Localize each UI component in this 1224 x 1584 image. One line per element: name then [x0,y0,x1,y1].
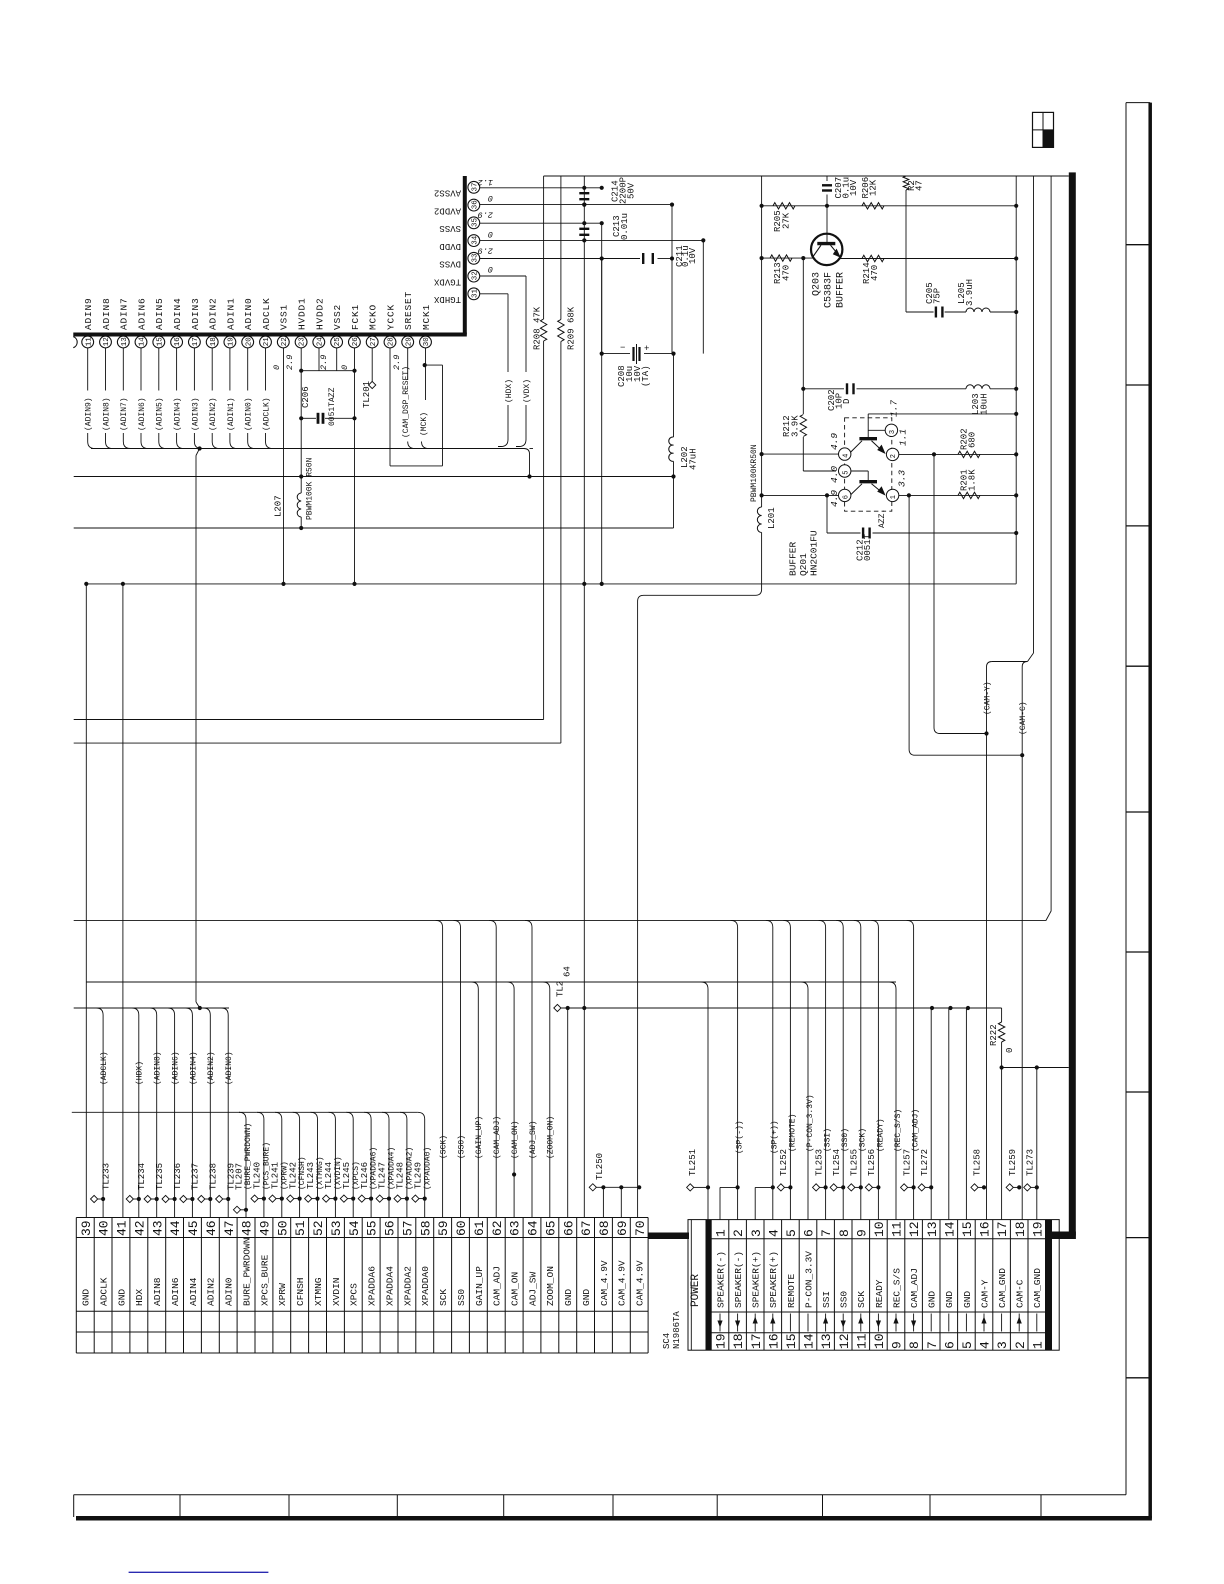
svg-text:49: 49 [258,1220,273,1236]
svg-text:CFNSH: CFNSH [295,1277,306,1306]
svg-text:4.9: 4.9 [829,490,840,507]
svg-text:17: 17 [749,1333,764,1349]
svg-text:SSI: SSI [821,1291,832,1308]
svg-text:(ADIN6): (ADIN6) [138,397,147,431]
svg-text:3.3: 3.3 [896,470,907,487]
svg-text:XVDIN: XVDIN [331,1277,342,1306]
svg-text:10: 10 [872,1333,887,1349]
svg-text:TL2: TL2 [556,981,566,997]
svg-text:(ADIN0): (ADIN0) [245,397,254,431]
svg-text:61: 61 [472,1220,487,1236]
svg-text:SRESET: SRESET [403,291,414,330]
svg-text:VSS2: VSS2 [332,304,343,330]
svg-text:CAM_ADJ: CAM_ADJ [492,1266,503,1306]
svg-text:XTMNG: XTMNG [313,1277,324,1306]
svg-text:5: 5 [960,1341,975,1349]
svg-text:(SS0): (SS0) [841,1128,850,1152]
svg-text:45: 45 [186,1220,201,1236]
svg-text:TL234: TL234 [137,1163,147,1190]
svg-text:(VDX): (VDX) [523,379,532,403]
svg-text:REC_S/S: REC_S/S [891,1268,902,1308]
svg-text:62: 62 [490,1220,505,1236]
svg-text:TL255: TL255 [850,1149,860,1176]
svg-text:SCK: SCK [438,1289,449,1306]
svg-text:TL240: TL240 [253,1162,263,1189]
svg-text:10V: 10V [688,247,698,264]
svg-text:1.1: 1.1 [897,429,908,446]
svg-text:24: 24 [316,337,324,347]
svg-text:R209 68K: R209 68K [567,306,577,350]
svg-text:(SP(+)): (SP(+)) [771,1120,780,1154]
svg-text:C5383F: C5383F [824,272,835,308]
svg-text:68: 68 [597,1220,612,1236]
svg-text:ADIN8: ADIN8 [101,297,112,330]
svg-text:(SP(-)): (SP(-)) [736,1120,745,1154]
svg-text:34: 34 [471,235,479,245]
svg-text:BURE_PWRDOWN: BURE_PWRDOWN [242,1238,253,1306]
svg-text:TL252: TL252 [779,1149,789,1176]
svg-text:(ADIN1): (ADIN1) [227,397,236,431]
svg-text:TGHDX: TGHDX [433,294,461,304]
svg-text:(CAM_ADJ): (CAM_ADJ) [493,1116,502,1159]
svg-text:39: 39 [79,1220,94,1236]
svg-text:ADIN8: ADIN8 [152,1277,163,1306]
svg-text:57: 57 [401,1220,416,1236]
svg-text:31: 31 [471,288,479,298]
svg-text:(ADIN0): (ADIN0) [225,1051,234,1085]
svg-text:(SCK): (SCK) [859,1128,868,1152]
svg-text:0: 0 [488,193,493,203]
svg-text:51: 51 [293,1220,308,1236]
svg-text:1.2: 1.2 [478,177,493,187]
svg-text:(SCK): (SCK) [440,1135,449,1159]
svg-text:56: 56 [383,1220,398,1236]
svg-text:0: 0 [488,264,493,274]
svg-text:POWER: POWER [690,1274,702,1307]
svg-text:CAM_4.9V: CAM_4.9V [635,1260,646,1306]
svg-text:TL248: TL248 [396,1162,406,1189]
svg-text:48: 48 [240,1220,255,1236]
svg-text:SPEAKER(-): SPEAKER(-) [733,1251,744,1308]
svg-text:TL247: TL247 [378,1162,388,1189]
svg-text:VSS1: VSS1 [279,304,290,330]
svg-text:3: 3 [749,1229,764,1237]
svg-text:Q201: Q201 [798,553,809,576]
svg-text:0051TAZZ: 0051TAZZ [328,387,337,426]
svg-text:4.0: 4.0 [829,466,840,483]
svg-text:(CAM-C): (CAM-C) [1019,701,1028,735]
svg-text:GND: GND [563,1289,574,1306]
svg-text:(GAIN_UP): (GAIN_UP) [475,1116,484,1159]
svg-text:CAM_GND: CAM_GND [1032,1268,1043,1308]
svg-text:SVSS: SVSS [439,223,461,233]
svg-text:0: 0 [272,365,282,370]
svg-text:5: 5 [784,1229,799,1237]
svg-text:GND: GND [944,1291,955,1308]
svg-text:0: 0 [488,229,493,239]
svg-text:TL256: TL256 [867,1149,877,1176]
svg-text:2: 2 [731,1229,746,1237]
svg-text:HVDD2: HVDD2 [314,297,325,330]
svg-text:6: 6 [802,1229,817,1237]
svg-text:TL250: TL250 [595,1153,605,1180]
svg-text:(ADCLK): (ADCLK) [262,397,271,431]
svg-text:(CAM-Y): (CAM-Y) [983,681,992,715]
svg-text:(SSI): (SSI) [824,1128,833,1152]
svg-text:8: 8 [837,1229,852,1237]
svg-text:23: 23 [299,337,307,347]
svg-text:(ADIN2): (ADIN2) [209,397,218,431]
svg-text:2.9: 2.9 [392,355,402,370]
svg-text:64: 64 [526,1220,541,1236]
svg-text:0.01u: 0.01u [620,213,630,240]
svg-text:18: 18 [210,337,218,346]
svg-text:52: 52 [311,1220,326,1236]
svg-text:TL238: TL238 [209,1163,219,1190]
svg-text:P-CON_3.3V: P-CON_3.3V [803,1251,814,1308]
svg-text:TL246: TL246 [360,1162,370,1189]
svg-text:22: 22 [281,337,289,346]
svg-text:(ADIN4): (ADIN4) [174,397,183,431]
svg-text:ADIN0: ADIN0 [243,297,254,330]
svg-text:TL241: TL241 [271,1162,281,1189]
svg-text:(HDX): (HDX) [505,379,514,403]
svg-text:PBWM100K R50N: PBWM100K R50N [305,457,314,520]
svg-text:16: 16 [978,1221,993,1237]
svg-text:8: 8 [907,1341,922,1349]
svg-text:SPEAKER(+): SPEAKER(+) [768,1251,779,1308]
svg-text:ADIN0: ADIN0 [224,1277,235,1306]
svg-text:YCCK: YCCK [385,304,396,330]
svg-text:HDX: HDX [134,1289,145,1306]
svg-text:10uH: 10uH [980,393,990,415]
svg-text:40: 40 [97,1220,112,1236]
svg-text:(ADIN8): (ADIN8) [154,1051,163,1085]
svg-text:32: 32 [471,271,479,280]
svg-text:3.9uH: 3.9uH [965,279,975,306]
svg-text:18: 18 [731,1333,746,1349]
svg-text:TGVDX: TGVDX [433,276,461,286]
svg-text:11: 11 [854,1333,869,1349]
svg-text:(REC_S/S): (REC_S/S) [894,1109,903,1152]
svg-text:TL254: TL254 [832,1149,842,1176]
svg-text:READY: READY [874,1279,885,1308]
svg-text:9: 9 [890,1341,905,1349]
svg-text:BUFFER: BUFFER [787,541,798,576]
svg-text:12: 12 [837,1333,852,1349]
svg-text:(SS0): (SS0) [457,1135,466,1159]
svg-text:HN2C01FU: HN2C01FU [808,530,819,576]
svg-text:470: 470 [782,265,792,281]
svg-text:47: 47 [222,1220,237,1236]
svg-text:14: 14 [802,1333,817,1349]
svg-text:N1986TA: N1986TA [672,1311,682,1349]
svg-text:(ADCLK): (ADCLK) [100,1051,109,1085]
svg-text:54: 54 [347,1220,362,1236]
svg-text:470: 470 [870,265,880,281]
svg-text:GND: GND [116,1289,127,1306]
svg-text:TL201: TL201 [362,381,372,408]
svg-text:17: 17 [995,1221,1010,1237]
svg-text:27: 27 [370,337,378,346]
svg-text:13: 13 [819,1333,834,1349]
svg-text:MCK1: MCK1 [421,304,432,330]
svg-text:(ADIN3): (ADIN3) [191,397,200,431]
svg-text:11: 11 [85,337,93,347]
svg-text:14: 14 [139,337,147,347]
svg-text:14: 14 [942,1221,957,1237]
svg-text:XPADDA6: XPADDA6 [367,1266,378,1306]
svg-text:R222: R222 [989,1024,999,1046]
svg-text:REMOTE: REMOTE [786,1273,797,1308]
svg-text:CAM_4.9V: CAM_4.9V [617,1260,628,1306]
svg-text:CAM_ON: CAM_ON [510,1272,521,1306]
svg-text:ADIN7: ADIN7 [119,297,130,330]
svg-text:(ADIN5): (ADIN5) [156,397,165,431]
svg-text:(ADJ_SW): (ADJ_SW) [529,1121,538,1159]
svg-text:4: 4 [766,1229,781,1237]
svg-text:D: D [842,399,852,404]
svg-text:15: 15 [784,1333,799,1349]
svg-text:60: 60 [454,1220,469,1236]
svg-text:10V: 10V [849,179,859,196]
svg-text:MCKO: MCKO [368,304,379,330]
svg-text:43: 43 [150,1220,165,1236]
svg-text:TL244: TL244 [324,1162,334,1189]
svg-text:SS0: SS0 [456,1289,467,1306]
svg-text:(P-CON_3.3V): (P-CON_3.3V) [806,1094,815,1152]
svg-text:BUFFER: BUFFER [836,272,847,308]
svg-text:XPCS: XPCS [349,1283,360,1306]
svg-text:ADCLK: ADCLK [99,1277,110,1306]
svg-text:XPCS_BURE: XPCS_BURE [259,1254,270,1306]
svg-text:ADIN6: ADIN6 [137,297,148,330]
svg-text:ADIN6: ADIN6 [170,1277,181,1306]
svg-text:GND: GND [581,1289,592,1306]
svg-text:75P: 75P [933,288,943,304]
svg-text:TL236: TL236 [173,1163,183,1190]
svg-text:(ADIN8): (ADIN8) [102,397,111,431]
svg-text:29: 29 [405,337,413,346]
svg-text:0051T: 0051T [863,533,873,561]
svg-text:58: 58 [418,1220,433,1236]
svg-text:15: 15 [156,337,164,347]
svg-text:15: 15 [960,1221,975,1237]
svg-text:69: 69 [615,1220,630,1236]
svg-text:SC4: SC4 [662,1333,672,1349]
svg-text:(ADIN6): (ADIN6) [171,1051,180,1085]
svg-text:XPADDA2: XPADDA2 [402,1266,413,1306]
svg-text:(CAM_ADJ): (CAM_ADJ) [912,1109,921,1152]
svg-text:R208 47K: R208 47K [533,306,543,350]
svg-text:44: 44 [168,1220,183,1236]
svg-text:XPADDA4: XPADDA4 [384,1266,395,1306]
svg-text:GND: GND [962,1291,973,1308]
svg-text:3: 3 [995,1341,1010,1349]
svg-text:SPEAKER(-): SPEAKER(-) [715,1251,726,1308]
svg-text:DVDD: DVDD [439,241,461,251]
svg-text:ADIN4: ADIN4 [188,1277,199,1306]
svg-text:(CAM_DSP_RESET): (CAM_DSP_RESET) [402,366,411,438]
svg-text:CAM-C: CAM-C [1015,1279,1026,1308]
svg-text:30: 30 [423,337,431,347]
svg-text:70: 70 [633,1220,648,1236]
svg-text:ADJ_SW: ADJ_SW [527,1271,538,1306]
svg-text:41: 41 [115,1220,130,1236]
svg-text:2.9: 2.9 [478,210,493,220]
svg-text:10: 10 [872,1221,887,1237]
svg-text:42: 42 [132,1220,147,1236]
svg-text:13: 13 [925,1221,940,1237]
svg-text:12K: 12K [869,179,879,196]
svg-text:ADIN5: ADIN5 [154,297,165,330]
svg-text:TL272: TL272 [920,1149,930,1176]
svg-text:AVSS2: AVSS2 [434,188,461,198]
svg-text:ADCLK: ADCLK [261,297,272,330]
svg-text:AZZ.: AZZ. [878,509,887,528]
svg-text:−: − [620,343,625,353]
svg-text:3.9K: 3.9K [791,415,801,437]
svg-text:C206: C206 [301,386,311,408]
svg-text:TL242: TL242 [288,1162,298,1189]
svg-text:4: 4 [842,454,850,458]
svg-text:CAM_ADJ: CAM_ADJ [909,1268,920,1308]
svg-text:19: 19 [1030,1221,1045,1237]
svg-text:19: 19 [714,1333,729,1349]
svg-text:6: 6 [942,1341,957,1349]
svg-text:11: 11 [890,1221,905,1237]
svg-text:36: 36 [471,200,479,210]
svg-text:(READY): (READY) [876,1118,885,1152]
svg-text:(TA): (TA) [641,365,651,387]
svg-text:2.9: 2.9 [478,246,493,256]
svg-text:ADIN2: ADIN2 [206,1277,217,1306]
svg-text:(HDX): (HDX) [136,1061,145,1085]
svg-text:0: 0 [340,365,350,370]
svg-text:2.9: 2.9 [285,355,295,370]
svg-text:ADIN4: ADIN4 [172,297,183,330]
svg-text:26: 26 [352,337,360,347]
svg-text:SPEAKER(+): SPEAKER(+) [751,1251,762,1308]
svg-text:TL207: TL207 [234,1163,244,1190]
svg-text:2.9: 2.9 [319,355,329,370]
svg-text:TL233: TL233 [101,1163,111,1190]
svg-text:TL258: TL258 [973,1149,983,1176]
svg-text:CAM_4.9V: CAM_4.9V [599,1260,610,1306]
svg-text:TL259: TL259 [1008,1149,1018,1176]
svg-text:CAM_GND: CAM_GND [997,1268,1008,1308]
svg-text:53: 53 [329,1220,344,1236]
svg-text:46: 46 [204,1220,219,1236]
svg-text:(CAM_ON): (CAM_ON) [511,1121,520,1159]
svg-text:6: 6 [842,495,850,499]
svg-text:(ADIN2): (ADIN2) [207,1051,216,1085]
svg-text:TL243: TL243 [306,1162,316,1189]
svg-text:ADIN3: ADIN3 [190,297,201,330]
svg-text:TL253: TL253 [814,1149,824,1176]
svg-text:5: 5 [842,471,850,475]
svg-text:(ADIN9): (ADIN9) [85,397,94,431]
svg-text:4.9: 4.9 [829,433,840,450]
svg-text:27K: 27K [782,212,792,229]
svg-text:TL273: TL273 [1026,1149,1036,1176]
svg-text:680: 680 [968,432,978,448]
svg-text:(MCK): (MCK) [420,412,429,436]
svg-text:19: 19 [228,337,236,346]
svg-text:ADIN2: ADIN2 [208,297,219,330]
svg-text:0: 0 [1005,1048,1015,1053]
svg-text:TL257: TL257 [902,1149,912,1176]
svg-text:TL235: TL235 [155,1163,165,1190]
svg-text:1.8K: 1.8K [968,469,978,491]
svg-text:(ADIN7): (ADIN7) [120,397,129,431]
svg-text:47uH: 47uH [689,448,699,470]
svg-text:SS0: SS0 [839,1291,850,1308]
svg-text:FCK1: FCK1 [350,304,361,330]
svg-text:1: 1 [714,1229,729,1237]
svg-text:XPRW: XPRW [277,1283,288,1306]
svg-text:59: 59 [436,1220,451,1236]
svg-text:25: 25 [334,337,342,347]
svg-text:TL237: TL237 [191,1163,201,1190]
svg-text:3: 3 [889,430,897,434]
svg-text:64: 64 [563,966,573,977]
svg-text:12: 12 [103,337,111,346]
svg-text:HVDD1: HVDD1 [297,297,308,330]
svg-text:L207: L207 [274,495,284,517]
svg-text:12: 12 [907,1221,922,1237]
svg-text:ADIN1: ADIN1 [225,297,236,330]
svg-text:L201: L201 [767,507,777,529]
svg-text:21: 21 [263,337,271,347]
svg-text:4: 4 [978,1341,993,1349]
svg-text:7: 7 [925,1341,940,1349]
svg-text:17: 17 [192,337,200,346]
svg-text:GND: GND [81,1289,92,1306]
svg-text:13: 13 [121,337,129,347]
svg-text:ADIN9: ADIN9 [83,297,94,330]
svg-text:16: 16 [766,1333,781,1349]
svg-text:1.7: 1.7 [888,400,899,417]
svg-text:(BURE_PWRDOWN): (BURE_PWRDOWN) [244,1123,253,1190]
svg-text:9: 9 [854,1229,869,1237]
svg-text:TL251: TL251 [688,1149,698,1176]
svg-text:50V: 50V [627,182,637,199]
svg-text:XPADDA0: XPADDA0 [420,1266,431,1306]
svg-text:1: 1 [1030,1341,1045,1349]
svg-text:Q203: Q203 [812,272,823,296]
svg-text:TL249: TL249 [414,1162,424,1189]
svg-text:47: 47 [915,180,925,191]
svg-text:7: 7 [819,1229,834,1237]
svg-text:20: 20 [245,337,253,347]
svg-text:63: 63 [508,1220,523,1236]
svg-text:50: 50 [275,1220,290,1236]
svg-text:16: 16 [174,337,182,347]
svg-text:ZOOM_ON: ZOOM_ON [545,1266,556,1306]
svg-text:28: 28 [388,337,396,346]
svg-text:67: 67 [579,1220,594,1236]
svg-text:65: 65 [543,1220,558,1236]
svg-text:AVDD2: AVDD2 [434,206,461,216]
svg-text:18: 18 [1013,1221,1028,1237]
svg-text:(ZOOM_ON): (ZOOM_ON) [547,1116,556,1159]
svg-text:55: 55 [365,1220,380,1236]
svg-text:2: 2 [1013,1341,1028,1349]
svg-text:1: 1 [890,495,898,499]
svg-text:CAM-Y: CAM-Y [979,1279,990,1308]
svg-text:SCK: SCK [856,1291,867,1308]
